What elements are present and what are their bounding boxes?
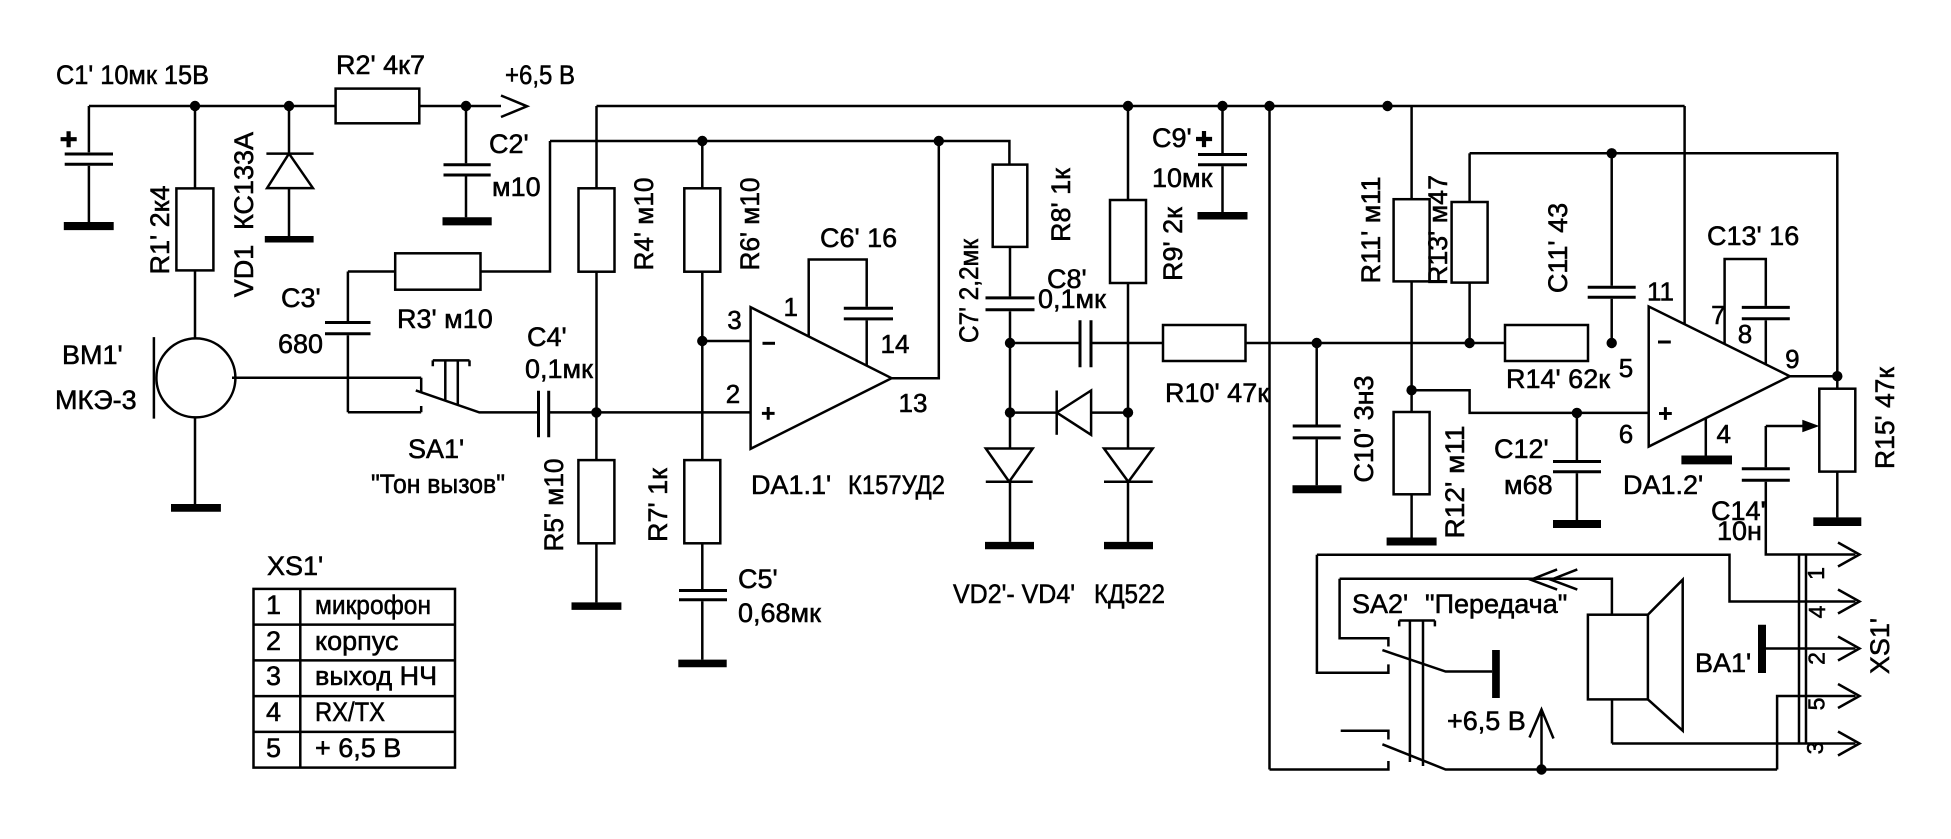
node junction R6 top xyxy=(697,136,707,146)
svg-text:R3' м10: R3' м10 xyxy=(397,304,493,334)
wire bias step to pin6 xyxy=(1412,390,1649,413)
capacitor C6 with pin1/pin14 wires xyxy=(809,260,893,366)
svg-text:10н: 10н xyxy=(1717,516,1762,546)
svg-text:+ 6,5 В: + 6,5 В xyxy=(315,733,401,763)
svg-text:0,68мк: 0,68мк xyxy=(738,598,821,628)
wire SA2 lower fixed contact from long vertical xyxy=(1270,761,1389,770)
svg-text:13: 13 xyxy=(899,388,928,418)
wire feedback rail DA1.1 xyxy=(550,141,1009,165)
resistor R12 xyxy=(1387,390,1437,545)
op-amp DA1.2 xyxy=(1649,307,1790,447)
svg-text:SA2': SA2' xyxy=(1352,589,1408,619)
svg-text:4: 4 xyxy=(266,697,281,727)
svg-text:R11' м11: R11' м11 xyxy=(1356,177,1386,284)
svg-text:0,1мк: 0,1мк xyxy=(1038,284,1106,314)
zener diode VD1 KC133A xyxy=(265,106,314,243)
wire BA1 top line from SA2 xyxy=(1340,579,1389,647)
svg-text:XS1': XS1' xyxy=(1865,618,1895,674)
node junction pin3 xyxy=(697,336,707,346)
connector table XS1 xyxy=(254,589,456,768)
svg-text:корпус: корпус xyxy=(315,626,398,656)
svg-text:R13' м47: R13' м47 xyxy=(1423,175,1453,285)
resistor R3 xyxy=(348,141,550,290)
svg-text:BA1': BA1' xyxy=(1695,648,1751,678)
capacitor C1 xyxy=(61,106,114,230)
wire pin5 supply xyxy=(1777,696,1855,770)
op-amp DA1.1 xyxy=(751,307,892,449)
wire C7 node down xyxy=(1009,343,1012,413)
resistor R9 xyxy=(1110,106,1146,413)
wire pin3 xyxy=(702,340,750,343)
capacitor C8 xyxy=(1010,320,1163,367)
svg-text:11: 11 xyxy=(1647,277,1674,307)
svg-text:5: 5 xyxy=(1619,353,1633,383)
node junction diode line left xyxy=(1005,407,1015,417)
node junction C1/R1 rail xyxy=(190,101,200,111)
svg-text:R14' 62к: R14' 62к xyxy=(1506,364,1610,394)
node junction C9 rail xyxy=(1217,101,1227,111)
svg-text:0,1мк: 0,1мк xyxy=(525,354,593,384)
svg-text:R5' м10: R5' м10 xyxy=(539,459,569,552)
resistor R7 xyxy=(684,460,720,589)
node junction R11/R12 divider xyxy=(1406,385,1416,395)
svg-text:2: 2 xyxy=(266,626,281,656)
connector pin 5 chevron xyxy=(1838,684,1860,708)
diode VD2 xyxy=(985,413,1034,550)
node junction C11 top xyxy=(1607,148,1617,158)
resistor R14 xyxy=(1505,325,1588,361)
wire inverting line to DA1.2 xyxy=(1317,342,1505,345)
node junction pin6/C12 xyxy=(1572,408,1582,418)
svg-text:м10: м10 xyxy=(492,172,541,202)
resistor R13 xyxy=(1452,153,1488,343)
wire DA1.2 output xyxy=(1790,375,1838,378)
svg-text:2: 2 xyxy=(1804,652,1830,665)
svg-text:+6,5 В: +6,5 В xyxy=(505,60,575,90)
connector pin 1 chevron xyxy=(1838,543,1860,567)
svg-text:КС133А: КС133А xyxy=(229,132,259,230)
svg-text:1: 1 xyxy=(1803,567,1829,580)
svg-text:14: 14 xyxy=(881,329,910,359)
svg-text:R2' 4к7: R2' 4к7 xyxy=(336,50,425,80)
svg-text:DA1.2': DA1.2' xyxy=(1623,470,1703,500)
svg-text:КД522: КД522 xyxy=(1094,579,1165,609)
microphone BM1 MKE-3 xyxy=(154,337,421,512)
svg-text:VD1: VD1 xyxy=(229,245,259,298)
SA2 actuator shaft xyxy=(1399,621,1435,767)
wire BA1 line xyxy=(1340,579,1612,615)
svg-text:9: 9 xyxy=(1785,344,1799,374)
svg-text:R6' м10: R6' м10 xyxy=(735,178,765,271)
wire SA2 upper fixed contact from pin4 line xyxy=(1317,555,1389,673)
svg-text:2: 2 xyxy=(726,379,740,409)
capacitor C10 xyxy=(1293,343,1342,493)
svg-text:3: 3 xyxy=(266,661,281,691)
connector pin 4 chevron xyxy=(1838,590,1860,614)
SA2 common contact bar upper xyxy=(1492,650,1500,698)
ground DA1.2 pin 4 xyxy=(1681,418,1732,464)
svg-text:4: 4 xyxy=(1716,419,1730,449)
svg-text:"Тон вызов": "Тон вызов" xyxy=(371,469,505,499)
capacitor C3 xyxy=(325,272,371,413)
diode VD3 xyxy=(1010,391,1128,435)
node junction C11 bottom xyxy=(1607,338,1617,348)
resistor R11 xyxy=(1394,106,1430,390)
svg-text:R12' м11: R12' м11 xyxy=(1440,426,1470,539)
svg-text:C11' 43: C11' 43 xyxy=(1543,203,1573,293)
svg-text:C13' 16: C13' 16 xyxy=(1707,221,1799,251)
wire DA1.1 output xyxy=(892,141,939,378)
wire pin 11 supply xyxy=(1683,106,1686,324)
svg-text:К157УД2: К157УД2 xyxy=(848,470,945,500)
svg-text:1: 1 xyxy=(266,590,281,620)
svg-text:ВМ1': ВМ1' xyxy=(62,340,123,370)
node junction C4/R4/R5/pin2 xyxy=(591,407,601,417)
wire feedback line DA1.2 xyxy=(1470,153,1838,376)
node junction output/feedback xyxy=(934,136,944,146)
capacitor C5 xyxy=(678,591,727,668)
svg-text:м68: м68 xyxy=(1504,470,1553,500)
switch SA1 xyxy=(348,360,537,412)
wire long vertical +6.5 to SA2 xyxy=(1268,106,1271,770)
svg-text:XS1': XS1' xyxy=(267,551,323,581)
svg-text:C4': C4' xyxy=(527,322,567,352)
capacitor C14 xyxy=(1742,426,1856,555)
node junction +6.5V bottom xyxy=(1536,764,1546,774)
connector pin 2 chevron xyxy=(1838,637,1860,661)
svg-text:8: 8 xyxy=(1738,319,1752,349)
node junction output DA1.2 xyxy=(1832,371,1842,381)
wire top rail left from C1 to +6.5V arrow xyxy=(89,105,501,108)
svg-text:C2': C2' xyxy=(489,129,529,159)
svg-text:микрофон: микрофон xyxy=(315,590,431,620)
wire top rail right section xyxy=(597,105,1685,108)
potentiometer R15 xyxy=(1766,376,1862,526)
svg-text:МКЭ-3: МКЭ-3 xyxy=(55,385,137,415)
svg-text:680: 680 xyxy=(278,329,323,359)
svg-text:R4' м10: R4' м10 xyxy=(629,178,659,271)
node junction C7/C8/VD xyxy=(1005,338,1015,348)
capacitor C11 xyxy=(1588,153,1636,343)
wire pin4 path RX/TX xyxy=(1317,555,1856,602)
svg-text:3: 3 xyxy=(727,305,741,335)
svg-text:C12': C12' xyxy=(1494,434,1549,464)
node junction VD1 rail xyxy=(284,101,294,111)
resistor R8 xyxy=(993,165,1028,297)
svg-text:+6,5 В: +6,5 В xyxy=(1447,706,1526,736)
svg-text:DA1.1': DA1.1' xyxy=(751,470,831,500)
switch SA2 lower lever xyxy=(1382,744,1777,769)
capacitor C4 xyxy=(539,391,597,438)
svg-text:VD2'- VD4': VD2'- VD4' xyxy=(953,579,1075,609)
svg-text:1: 1 xyxy=(783,292,797,322)
svg-text:выход НЧ: выход НЧ xyxy=(315,661,437,691)
switch SA2 upper lever xyxy=(1382,650,1492,671)
wire pin3 output xyxy=(1612,742,1856,745)
capacitor C13 with pin7/pin8 wires xyxy=(1725,259,1790,364)
svg-text:C3': C3' xyxy=(281,283,321,313)
diode VD4 xyxy=(1104,413,1153,550)
contact bar pin 2 xyxy=(1758,625,1766,673)
capacitor C2 xyxy=(443,106,492,225)
supply arrow +6.5V top xyxy=(501,96,527,118)
svg-text:SA1': SA1' xyxy=(408,434,464,464)
svg-text:R7' 1к: R7' 1к xyxy=(643,468,673,542)
connector pin 3 chevron xyxy=(1838,732,1860,756)
svg-text:C7' 2,2мк: C7' 2,2мк xyxy=(954,239,984,343)
speaker BA1 xyxy=(1588,580,1683,744)
svg-text:"Передача": "Передача" xyxy=(1425,589,1567,619)
resistor R2 xyxy=(336,89,420,124)
svg-text:10мк: 10мк xyxy=(1152,163,1213,193)
node junction R11 rail xyxy=(1382,101,1392,111)
direction chevrons on BA1 line xyxy=(1531,569,1578,589)
svg-text:R9' 2к: R9' 2к xyxy=(1158,207,1188,281)
supply arrow +6.5V bottom xyxy=(1530,710,1554,770)
svg-text:3: 3 xyxy=(1802,742,1828,755)
wire pin2 xyxy=(596,411,750,414)
connector XS1 body lines xyxy=(1799,554,1806,744)
svg-text:C9': C9' xyxy=(1152,123,1192,153)
svg-text:C6' 16: C6' 16 xyxy=(820,223,897,253)
resistor R6 xyxy=(684,141,720,460)
svg-text:C10' 3н3: C10' 3н3 xyxy=(1349,375,1379,482)
svg-text:R8' 1к: R8' 1к xyxy=(1046,168,1076,242)
node junction R13 bottom xyxy=(1464,338,1474,348)
node junction diode line right xyxy=(1123,407,1133,417)
resistor R4 xyxy=(579,106,615,412)
svg-text:5: 5 xyxy=(1804,698,1830,711)
svg-text:R10' 47к: R10' 47к xyxy=(1165,378,1269,408)
SA2 lower floating contact stub xyxy=(1341,731,1389,740)
node junction long vertical rail xyxy=(1264,101,1274,111)
svg-text:R1' 2к4: R1' 2к4 xyxy=(145,185,175,274)
svg-text:C1' 10мк 15В: C1' 10мк 15В xyxy=(56,60,209,90)
capacitor C7 xyxy=(986,298,1035,343)
resistor R1 xyxy=(176,106,213,339)
resistor R5 xyxy=(572,412,622,610)
resistor R10 xyxy=(1163,325,1317,361)
svg-text:C5': C5' xyxy=(738,564,778,594)
svg-text:RX/TX: RX/TX xyxy=(315,697,385,727)
svg-text:R15' 47к: R15' 47к xyxy=(1870,367,1900,469)
capacitor C9 xyxy=(1196,106,1248,220)
svg-text:4: 4 xyxy=(1804,605,1830,618)
wire pin2 body xyxy=(1766,647,1856,650)
node junction C2 rail xyxy=(461,101,471,111)
svg-text:6: 6 xyxy=(1619,419,1633,449)
svg-text:5: 5 xyxy=(266,733,281,763)
capacitor C12 xyxy=(1553,413,1601,528)
node junction R9 top rail xyxy=(1123,101,1133,111)
node junction R10/C10/R14 xyxy=(1312,338,1322,348)
